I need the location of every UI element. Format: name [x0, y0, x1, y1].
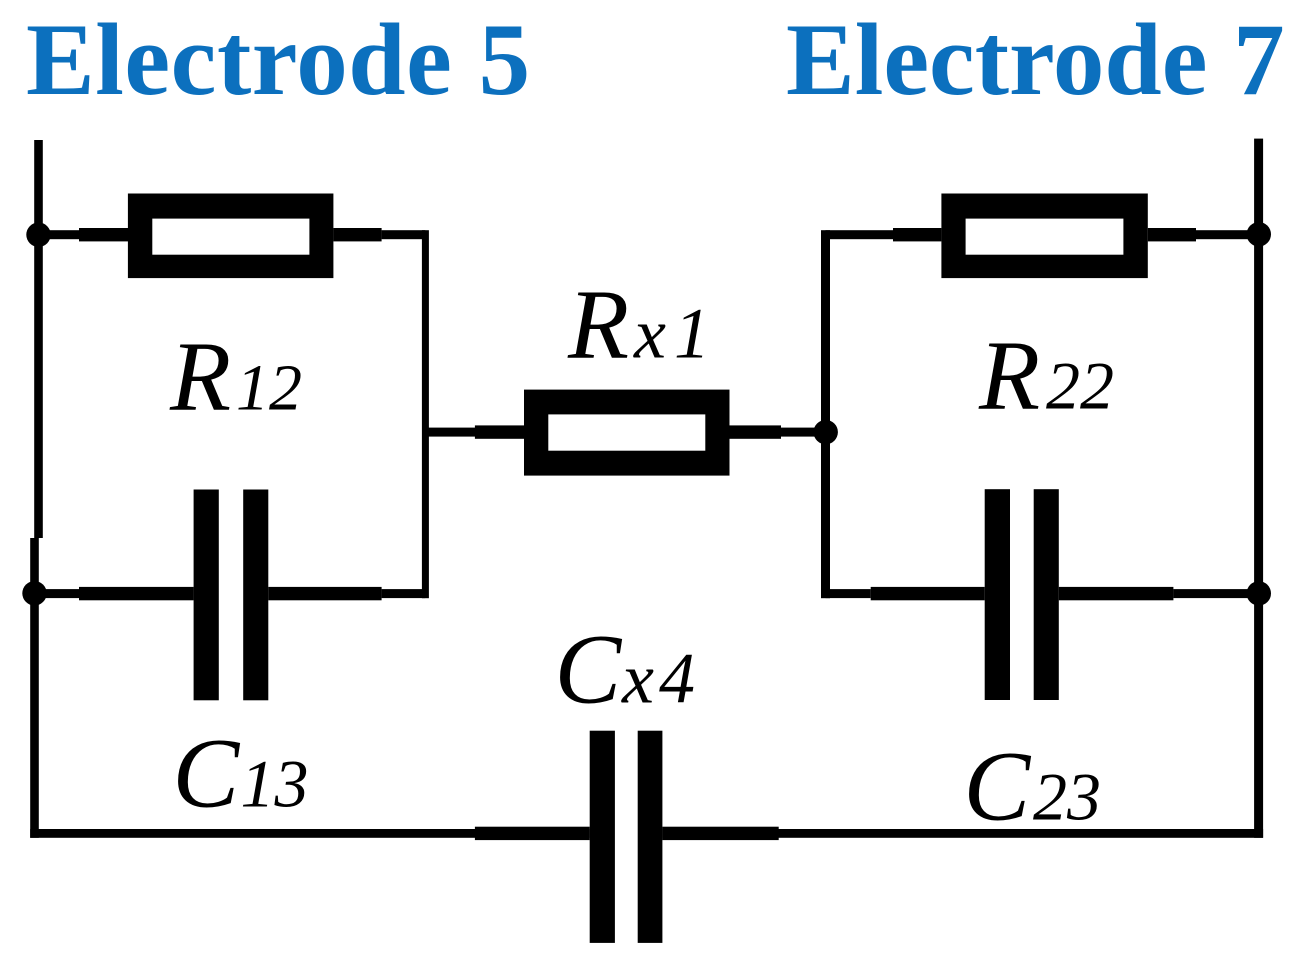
wire left block right bus: [422, 230, 429, 598]
wire R12 left pin thick: [79, 228, 128, 241]
junction top-right node: [1247, 222, 1271, 246]
wire Cx4 left lead thick: [475, 827, 590, 840]
wire Cx4 right lead thick: [662, 827, 778, 840]
wire left electrode vertical (lower segment): [30, 538, 39, 838]
junction top-left node: [26, 223, 50, 247]
wire Rx1 left lead thin: [425, 428, 475, 437]
wire right electrode vertical: [1254, 139, 1263, 838]
wire C23 left lead thick: [871, 587, 985, 600]
junction bottom-left node: [22, 581, 46, 605]
resistor Rx1: [524, 390, 730, 476]
wire Rx1 right lead thin: [781, 428, 826, 437]
wire R12 right lead thin: [382, 230, 426, 239]
resistor R22: [941, 194, 1147, 279]
wire bottom rail left of Cx4: [30, 829, 590, 838]
wire R22 left pin thick: [893, 228, 941, 241]
wire R22 left lead thin: [826, 230, 894, 239]
wire Rx1 right pin thick: [730, 425, 782, 438]
capacitor Cx4: [590, 731, 663, 943]
wire R22 right lead thin: [1196, 230, 1259, 239]
wire Rx1 left pin thick: [475, 425, 524, 438]
resistor R12: [128, 194, 334, 279]
svg-text:Electrode 7: Electrode 7: [786, 3, 1285, 117]
wire R12 left lead thin: [39, 230, 81, 239]
wire right block left bus: [821, 230, 830, 598]
wire C13 right lead thick: [268, 587, 381, 600]
wire R12 right pin thick: [333, 228, 381, 241]
wire bottom rail right of Cx4: [662, 829, 1263, 838]
wire R22 right pin thick: [1148, 228, 1196, 241]
wire C23 left lead thin: [826, 589, 871, 598]
wire C13 left lead thin: [35, 589, 81, 598]
capacitor C13: [194, 490, 269, 701]
junction Rx1 right node: [814, 420, 838, 444]
wire C23 right lead thick: [1059, 587, 1174, 600]
junction bottom-right node: [1247, 581, 1271, 605]
svg-text:Electrode 5: Electrode 5: [26, 3, 531, 117]
capacitor C23: [985, 489, 1059, 700]
wire left electrode vertical (upper segment): [34, 140, 43, 538]
wire C23 right lead thin: [1173, 589, 1258, 598]
wire C13 left lead thick: [79, 587, 194, 600]
wire C13 right lead thin: [382, 589, 426, 598]
